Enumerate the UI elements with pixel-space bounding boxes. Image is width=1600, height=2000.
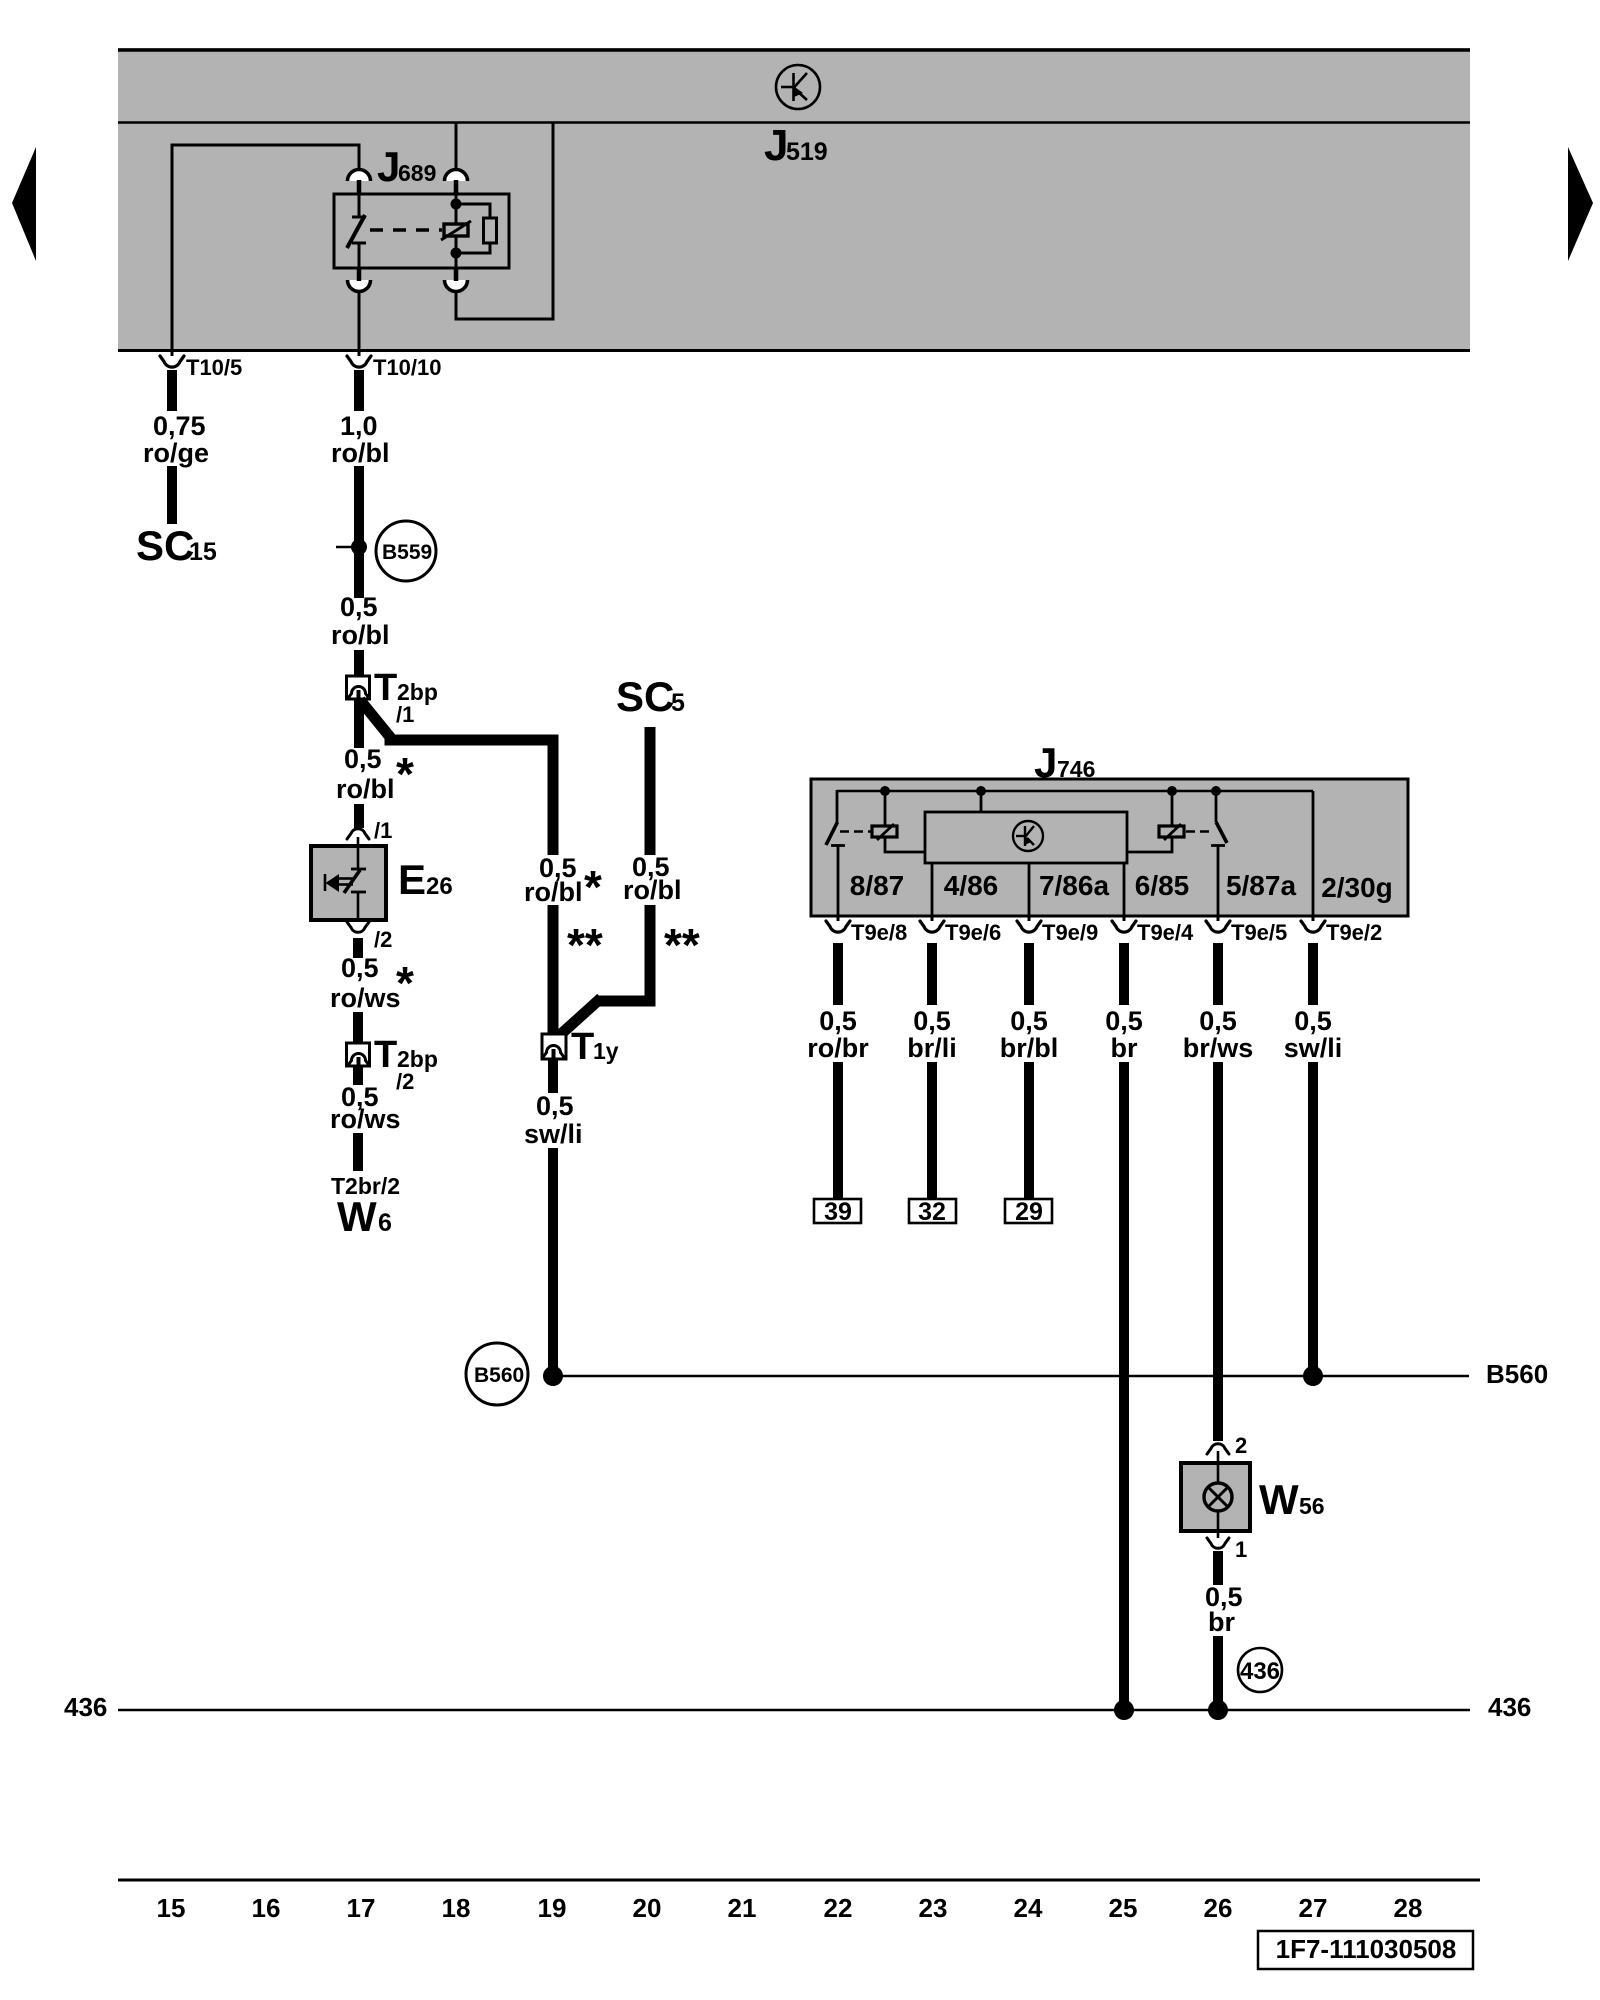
svg-text:/2: /2: [374, 927, 392, 952]
terminal box 32: [909, 1198, 956, 1226]
svg-text:1: 1: [1235, 1537, 1247, 1562]
wire T2bp to T1y vertical: [524, 740, 603, 1034]
svg-text:ro/ws: ro/ws: [330, 983, 401, 1013]
svg-text:ro/bl: ro/bl: [524, 877, 583, 907]
svg-text:39: 39: [824, 1198, 852, 1226]
pin arc top-right: [445, 170, 468, 182]
J746 pin 6/85 lead: [1123, 863, 1126, 916]
svg-text:19: 19: [538, 1893, 567, 1923]
node dot lamp wire on 436: [1208, 1700, 1228, 1720]
J746 pin 4/86 lead: [931, 863, 934, 916]
label J519: [764, 121, 828, 170]
pin arc top-left: [348, 170, 371, 182]
svg-text:0,5: 0,5: [1199, 1006, 1237, 1036]
svg-text:/1: /1: [396, 702, 414, 727]
svg-text:436: 436: [1240, 1658, 1280, 1685]
wire J519 internal to T10/5: [172, 145, 359, 352]
svg-text:24: 24: [1014, 1893, 1043, 1923]
pin arc bottom-left: [348, 280, 371, 292]
svg-text:21: 21: [728, 1893, 757, 1923]
control unit J519 box: [118, 48, 1470, 352]
svg-text:22: 22: [824, 1893, 853, 1923]
J746 left relay contact 8/87: [826, 790, 845, 916]
connector T10/10: [347, 352, 442, 380]
svg-text:T10/10: T10/10: [373, 355, 442, 380]
switch contact: [358, 194, 361, 216]
svg-text:*: *: [396, 748, 414, 800]
grid numbers: [157, 1893, 1423, 1923]
wire B560 bus line: [553, 1359, 1548, 1389]
connector T2bp/1: [347, 667, 438, 727]
svg-text:ro/bl: ro/bl: [623, 875, 682, 905]
wire 0,5 ro/ws: [330, 938, 414, 1043]
svg-text:ro/bl: ro/bl: [331, 620, 390, 650]
svg-text:br: br: [1111, 1033, 1138, 1063]
right page arrow: [1568, 147, 1593, 261]
J746 internal bus line: [837, 790, 1313, 793]
J746 central control box: [925, 791, 1127, 863]
svg-text:ro/bl: ro/bl: [336, 774, 395, 804]
node dot sw/li to B560: [1303, 1366, 1323, 1386]
J746 right relay coil: [1127, 791, 1212, 852]
node 436 circle label: [1238, 1648, 1282, 1692]
wire 0,5 br/ws: [1183, 943, 1254, 1441]
svg-text:1F7-111030508: 1F7-111030508: [1276, 1934, 1457, 1964]
svg-text:15: 15: [189, 538, 217, 566]
wire 0,5 br to ground 436: [1205, 1551, 1243, 1706]
svg-text:J: J: [377, 143, 400, 190]
svg-text:*: *: [584, 861, 602, 913]
connector T2bp/2: [347, 1034, 438, 1094]
K symbol in J746: [1013, 821, 1043, 851]
connector T10/5: [160, 352, 242, 380]
connector T9e/5: [1206, 916, 1287, 945]
svg-text:0,5: 0,5: [1010, 1006, 1048, 1036]
actuation dashed line: [370, 228, 442, 231]
lamp W56: [1181, 1433, 1325, 1562]
J746 pin labels: [850, 870, 1393, 903]
svg-text:17: 17: [347, 1893, 376, 1923]
label SC5: [616, 673, 685, 720]
part number box: [1258, 1931, 1473, 1969]
svg-text:W: W: [337, 1193, 377, 1240]
svg-text:B559: B559: [382, 541, 432, 564]
relay J689: [334, 170, 509, 292]
node B560 junction: [466, 1343, 563, 1405]
svg-text:6/85: 6/85: [1135, 870, 1190, 901]
wire 0,5 sw/li: [524, 1059, 583, 1372]
terminal box 29: [1005, 1198, 1052, 1226]
node dot right switch: [1211, 786, 1221, 796]
svg-text:T9e/9: T9e/9: [1042, 920, 1098, 945]
svg-text:56: 56: [1299, 1493, 1325, 1519]
svg-text:436: 436: [1488, 1692, 1531, 1722]
control unit J746 box: [811, 779, 1408, 916]
svg-text:746: 746: [1057, 756, 1095, 782]
svg-text:sw/li: sw/li: [524, 1119, 583, 1149]
svg-text:J: J: [764, 121, 788, 170]
svg-text:436: 436: [64, 1692, 107, 1722]
svg-text:SC: SC: [616, 673, 674, 720]
connector T9e/6: [920, 916, 1001, 945]
svg-text:J: J: [1034, 739, 1057, 786]
svg-text:0,5: 0,5: [344, 744, 382, 774]
wire 0,5 sw/li right: [1284, 943, 1343, 1370]
parallel resistor: [456, 204, 490, 218]
svg-text:27: 27: [1299, 1893, 1328, 1923]
svg-text:16: 16: [252, 1893, 281, 1923]
connector T9e/4: [1112, 916, 1194, 945]
grid ruler line: [118, 1879, 1480, 1882]
J746 right relay contact 5/87a: [1211, 790, 1227, 916]
svg-text:br: br: [1208, 1607, 1235, 1637]
svg-text:519: 519: [786, 138, 828, 166]
node dot left coil: [880, 786, 890, 796]
svg-text:B560: B560: [1486, 1359, 1548, 1389]
wire 1,0 ro/bl: [331, 370, 390, 598]
svg-text:5: 5: [671, 689, 685, 717]
wire 0,75 ro/ge: [143, 370, 209, 524]
svg-text:0,5: 0,5: [340, 592, 378, 622]
wire 0,5 ro/bl upper: [331, 592, 390, 676]
svg-text:8/87: 8/87: [850, 870, 905, 901]
wire 0,5 br: [1105, 943, 1143, 1706]
svg-text:7/86a: 7/86a: [1039, 870, 1109, 901]
svg-text:20: 20: [633, 1893, 662, 1923]
label J689: [377, 143, 436, 190]
svg-text:0,5: 0,5: [1105, 1006, 1143, 1036]
wire 0,5 br/li: [907, 943, 957, 1199]
svg-text:2/30g: 2/30g: [1321, 872, 1393, 903]
relay coil: [444, 224, 468, 236]
svg-text:T10/5: T10/5: [186, 355, 242, 380]
svg-text:0,75: 0,75: [153, 411, 206, 441]
svg-text:W: W: [1259, 1476, 1299, 1523]
svg-text:0,5: 0,5: [819, 1006, 857, 1036]
svg-text:5/87a: 5/87a: [1226, 870, 1296, 901]
connector T9e/2: [1301, 916, 1382, 945]
svg-text:/1: /1: [374, 818, 392, 843]
K symbol (bus connection) in J519: [776, 65, 820, 109]
svg-text:689: 689: [398, 160, 436, 186]
svg-text:SC: SC: [136, 522, 194, 569]
svg-text:T9e/2: T9e/2: [1326, 920, 1382, 945]
svg-text:1y: 1y: [593, 1038, 619, 1064]
svg-text:B560: B560: [474, 1364, 524, 1387]
node dot right coil: [1167, 786, 1177, 796]
svg-text:26: 26: [426, 873, 453, 900]
svg-text:32: 32: [918, 1198, 946, 1226]
svg-text:25: 25: [1109, 1893, 1138, 1923]
svg-text:23: 23: [919, 1893, 948, 1923]
label T2br/2 W6: [331, 1173, 400, 1240]
svg-text:T9e/4: T9e/4: [1137, 920, 1194, 945]
svg-text:29: 29: [1015, 1198, 1043, 1226]
wire J519 internal coil bottom loop: [456, 122, 553, 319]
svg-text:28: 28: [1394, 1893, 1423, 1923]
svg-text:2: 2: [1235, 1433, 1247, 1458]
wire SC5 branch: [560, 727, 700, 1035]
node dot br wire on 436: [1114, 1700, 1134, 1720]
svg-text:0,5: 0,5: [536, 1091, 574, 1121]
svg-text:ro/br: ro/br: [807, 1033, 869, 1063]
svg-text:T9e/8: T9e/8: [851, 920, 907, 945]
svg-text:0,5: 0,5: [341, 953, 379, 983]
wire branch to T1y: [360, 700, 553, 750]
wire 0,5 ro/br: [807, 943, 869, 1199]
connector T9e/9: [1017, 916, 1098, 945]
svg-text:ro/ws: ro/ws: [330, 1104, 401, 1134]
connector T9e/8: [826, 916, 907, 945]
svg-text:br/ws: br/ws: [1183, 1033, 1254, 1063]
svg-text:4/86: 4/86: [944, 870, 999, 901]
svg-text:br/bl: br/bl: [1000, 1033, 1059, 1063]
svg-text:6: 6: [378, 1209, 392, 1237]
wire J519 internal coil top: [455, 122, 458, 168]
svg-text:T: T: [571, 1026, 594, 1068]
svg-text:15: 15: [157, 1893, 186, 1923]
svg-text:ro/bl: ro/bl: [331, 438, 390, 468]
svg-text:br/li: br/li: [907, 1033, 957, 1063]
wire 0,5 br/bl: [1000, 943, 1059, 1199]
terminal box 39: [814, 1198, 861, 1226]
svg-text:E: E: [398, 856, 426, 903]
svg-text:**: **: [664, 919, 700, 971]
wire J689 switch out to T10/10: [358, 291, 361, 352]
manual actuation arrow: [324, 874, 327, 891]
J746 pin 7/86a lead: [1028, 863, 1031, 916]
svg-text:1,0: 1,0: [340, 411, 378, 441]
label J746: [1034, 739, 1095, 786]
label SC15: [136, 522, 217, 569]
J746 pin 2/30g lead: [1312, 791, 1315, 916]
node dot control top: [976, 786, 986, 796]
svg-text:/2: /2: [396, 1069, 414, 1094]
J746 left relay coil: [840, 791, 925, 852]
junction dots: [451, 199, 462, 210]
wire 0,5 ro/ws lower: [330, 1066, 401, 1171]
svg-text:18: 18: [442, 1893, 471, 1923]
svg-text:26: 26: [1204, 1893, 1233, 1923]
wire 0,5 ro/bl to E26: [336, 699, 414, 828]
connector T1y: [542, 1026, 619, 1068]
svg-text:T9e/5: T9e/5: [1231, 920, 1287, 945]
svg-text:T9e/6: T9e/6: [945, 920, 1001, 945]
switch E26: [311, 818, 453, 952]
node B559 tap: [336, 521, 436, 581]
ground line 436: [64, 1692, 1531, 1722]
svg-text:0,5: 0,5: [1294, 1006, 1332, 1036]
svg-text:ro/ge: ro/ge: [143, 438, 209, 468]
svg-text:T: T: [374, 1034, 397, 1076]
svg-text:T: T: [374, 667, 397, 709]
left page arrow: [12, 147, 36, 261]
svg-text:sw/li: sw/li: [1284, 1033, 1343, 1063]
svg-text:**: **: [567, 919, 603, 971]
pin arc bottom-right: [445, 280, 468, 292]
svg-text:0,5: 0,5: [913, 1006, 951, 1036]
